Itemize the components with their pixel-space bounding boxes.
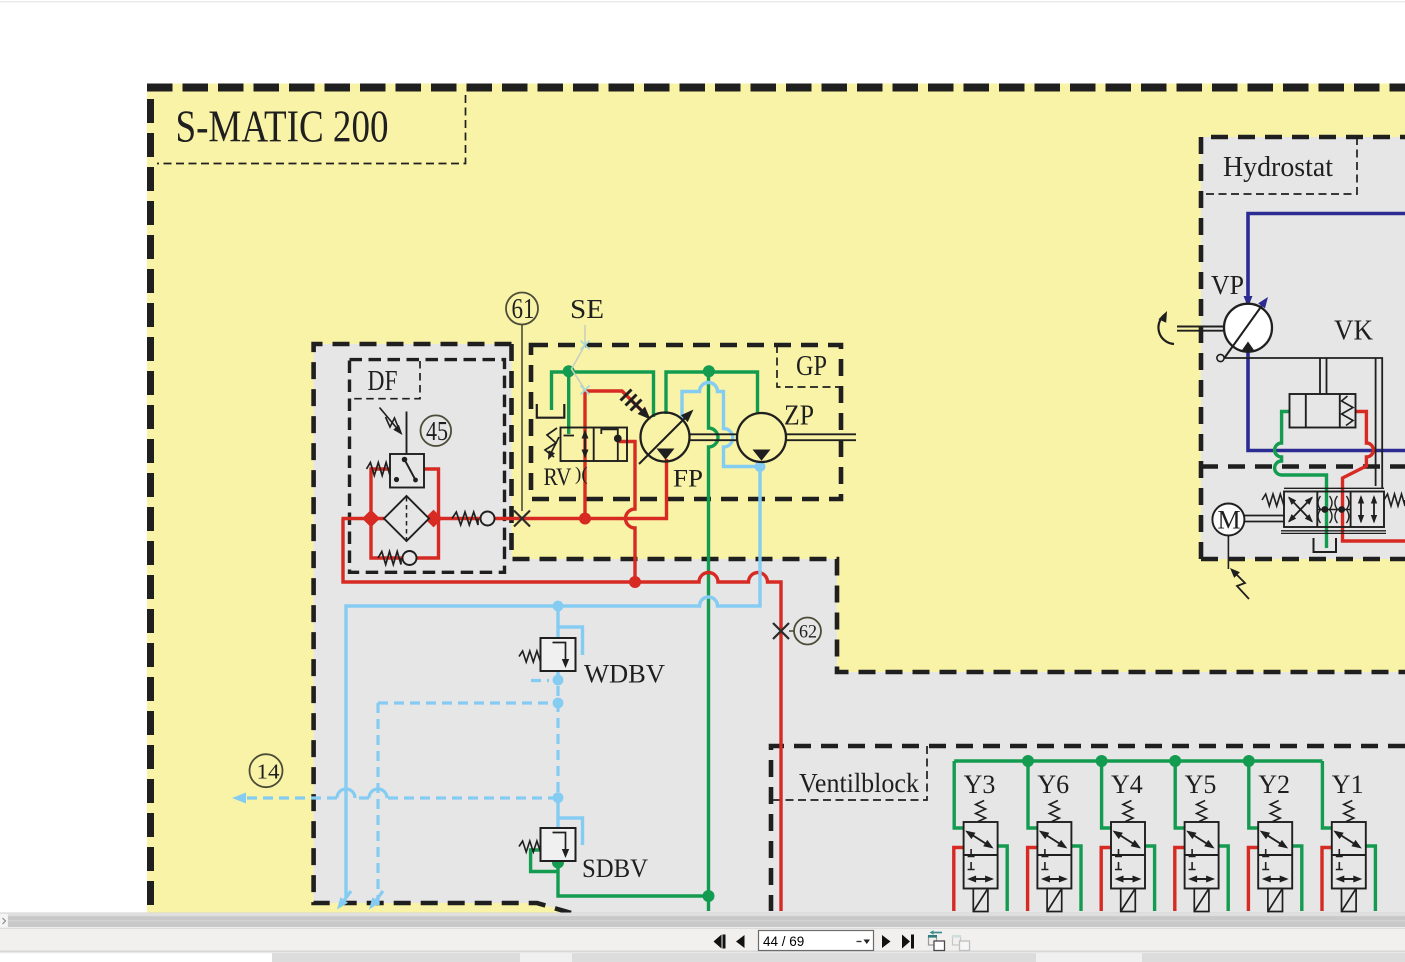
wire red Hydrostat VK right <box>1343 412 1405 542</box>
svg-text:14: 14 <box>257 760 281 784</box>
svg-text:Ventilblock: Ventilblock <box>799 768 919 798</box>
VP shaft <box>1177 326 1225 328</box>
valve Y4 <box>1102 761 1111 828</box>
wire green suction bus right segment FP to ZP <box>666 372 758 414</box>
line to marker 61 <box>521 325 523 512</box>
RV blocked port tick <box>564 435 575 437</box>
border title box <box>157 95 466 164</box>
cylinder VK body <box>1290 394 1356 428</box>
pump VP circle <box>1224 304 1272 352</box>
horizontal scrollbar <box>0 913 1405 929</box>
wire green SDBV outlet <box>531 850 709 896</box>
wire blue dashed arc bumps <box>337 789 387 798</box>
VK feedback linkage <box>1224 358 1383 488</box>
svg-text:ZP: ZP <box>784 401 814 432</box>
bottom status strip <box>0 952 1405 962</box>
page number box <box>759 931 874 951</box>
node red junction diamond <box>425 510 443 528</box>
valve RV body <box>561 428 628 462</box>
svg-text:45: 45 <box>426 416 448 446</box>
border GP box <box>531 345 841 499</box>
node blue junction <box>553 792 564 803</box>
orifice spring lower bypass <box>378 552 401 565</box>
pressure switch 45 body <box>390 454 424 488</box>
wire green tank to suction bus left segment <box>552 372 654 417</box>
RV flow arrow <box>584 433 586 456</box>
VP pivot <box>1217 354 1224 361</box>
wire green Ventilblock bus <box>954 759 1322 762</box>
svg-text:44 / 69: 44 / 69 <box>763 934 804 949</box>
X tap 62 <box>773 623 789 639</box>
svg-text:62: 62 <box>799 622 817 643</box>
pressure switch stem <box>406 412 408 455</box>
prop valve right arrows <box>1360 497 1362 522</box>
svg-text:VK: VK <box>1334 316 1373 347</box>
prop valve body <box>1284 492 1384 528</box>
node green bus dot <box>1243 755 1255 767</box>
RV spring lower left <box>545 428 557 457</box>
node blue junction <box>553 675 564 686</box>
wire blue WDBV feed <box>558 606 583 655</box>
border GP label box <box>777 345 841 387</box>
wire green branch to RV valve <box>567 372 570 434</box>
border Ventilblock label box <box>771 746 927 800</box>
node green junction <box>703 365 715 377</box>
node green junction <box>703 890 715 902</box>
node blue junction <box>755 461 766 472</box>
tank below prop valve <box>1314 538 1337 552</box>
prop valve center throttles <box>1321 506 1328 513</box>
border gray region <box>314 344 1405 913</box>
marker circle 61 <box>506 293 538 325</box>
node green bus dot <box>1022 755 1034 767</box>
border Hydrostat label box <box>1201 137 1357 194</box>
wire navy top line to VP <box>1248 214 1405 300</box>
node red junction <box>629 576 641 588</box>
M actuator zigzag arrow <box>1233 571 1249 599</box>
M actuator line <box>1227 536 1229 570</box>
border S-MATIC outer left <box>147 88 154 906</box>
wire blue dashed pilot stub <box>531 679 549 682</box>
M shaft <box>1245 515 1285 517</box>
motor M circle <box>1212 504 1244 536</box>
node green junction <box>563 365 575 377</box>
rotation arrow <box>1158 314 1174 344</box>
wire blue dashed line to 14 <box>244 796 558 799</box>
svg-text:WDBV: WDBV <box>584 660 665 689</box>
wire blue FP top to ZP bottom <box>682 383 760 467</box>
node green bus dot <box>1096 755 1108 767</box>
toolbar <box>0 928 1405 952</box>
prop valve rails <box>1281 488 1386 533</box>
valve WDBV body <box>541 638 576 671</box>
valve SDBV body <box>541 828 576 861</box>
prop valve crossed arrows <box>1289 498 1312 522</box>
arrow blue tank dashed <box>369 897 380 909</box>
icon facing pages (disabled) <box>952 935 970 951</box>
svg-text:Y1: Y1 <box>1332 770 1364 799</box>
wire blue WDBV outlet <box>556 671 559 680</box>
wire red RV pilot line <box>585 391 641 519</box>
SDBV arrow <box>553 833 566 851</box>
arrow blue tank left <box>337 897 348 909</box>
arrow blue to 14 <box>232 793 246 804</box>
S-MATIC 200 yellow region <box>147 84 1405 914</box>
button first page <box>714 935 915 949</box>
drive shaft lines <box>690 433 738 435</box>
wire green Hydrostat VK to tank <box>1275 412 1327 549</box>
valve Y5 <box>1175 761 1184 828</box>
svg-text:SE: SE <box>570 294 604 324</box>
icon single page <box>928 930 945 950</box>
svg-text:Hydrostat: Hydrostat <box>1223 151 1333 183</box>
FP control spring arrow <box>631 400 647 416</box>
svg-text:SDBV: SDBV <box>582 854 648 883</box>
border S-MATIC outer top <box>147 84 1405 92</box>
node blue junction <box>553 698 564 709</box>
node red junction diamond <box>362 510 380 528</box>
node green bus dot <box>1169 755 1181 767</box>
svg-text:FP: FP <box>673 466 703 493</box>
wire green long vertical to valve block <box>709 372 719 911</box>
wire red DF switch bypass <box>371 469 439 519</box>
wire red DF lower check bypass <box>371 519 439 559</box>
border Ventilblock box <box>771 746 1405 911</box>
WDBV spring <box>519 651 541 662</box>
wire blue dashed WDBV drain vertical <box>556 686 559 797</box>
orifice spring main line <box>452 512 478 525</box>
SE sensor line <box>572 325 586 391</box>
VP variable arrow <box>1224 304 1263 359</box>
wire red main pressure line DF to FP <box>342 459 667 519</box>
svg-text:S-MATIC 200: S-MATIC 200 <box>176 102 389 152</box>
SE tap marks <box>581 341 590 395</box>
node green junction <box>552 857 564 869</box>
svg-text:)(: )( <box>575 464 588 485</box>
border DF label box <box>351 361 420 399</box>
valve Y2 <box>1249 761 1258 828</box>
svg-text:Y3: Y3 <box>964 770 996 799</box>
SDBV spring <box>519 841 541 852</box>
gray sub-block region <box>314 344 1405 913</box>
svg-text:RV: RV <box>544 464 572 491</box>
FP variable arrow <box>639 416 687 464</box>
svg-text:VP: VP <box>1211 270 1244 300</box>
spring left of switch <box>367 463 391 476</box>
Hydrostat gray region <box>1201 137 1405 559</box>
wire navy VP outlet <box>1248 352 1405 451</box>
wire blue dashed horizontal upper <box>378 701 558 704</box>
wire blue main down and left <box>346 467 760 898</box>
svg-text:M: M <box>1218 506 1241 535</box>
check ball lower bypass <box>403 551 417 565</box>
border Hydrostat box <box>1201 137 1405 559</box>
valve Y6 <box>1028 761 1037 828</box>
valve Y3 <box>954 761 963 828</box>
marker circle 62 <box>794 618 821 645</box>
wire blue dashed vertical left <box>376 703 379 905</box>
wire red RV right port with hop <box>619 442 635 583</box>
svg-text:Y2: Y2 <box>1258 770 1290 799</box>
svg-text:61: 61 <box>512 294 535 325</box>
ZP out triangle <box>753 450 771 461</box>
node red junction <box>579 513 591 525</box>
pump FP circle <box>641 413 690 462</box>
svg-text:Y4: Y4 <box>1111 770 1143 799</box>
svg-text:Y5: Y5 <box>1185 770 1217 799</box>
filter DF diamond <box>384 496 429 541</box>
check ball main line <box>481 512 495 526</box>
svg-text:DF: DF <box>368 366 398 397</box>
valve Y1 <box>1322 761 1331 828</box>
svg-text:GP: GP <box>796 351 827 382</box>
marker circle 14 <box>250 754 283 787</box>
node blue junction <box>553 601 564 612</box>
pressure switch contact <box>405 460 416 481</box>
marker circle 45 <box>421 415 452 446</box>
border DF inner box <box>350 360 505 573</box>
pressure switch actuator arrow <box>386 417 399 428</box>
wire red DF drain + lower line to 62 <box>343 519 781 912</box>
wire blue SDBV feed <box>558 797 583 845</box>
tank symbol GP <box>537 404 565 418</box>
X tap 61 <box>514 511 530 527</box>
svg-text:Y6: Y6 <box>1037 770 1069 799</box>
wire blue ZP stub <box>758 461 761 467</box>
arrow navy into VP <box>1244 296 1253 307</box>
FP out triangle <box>657 449 675 460</box>
prop valve springs <box>1262 494 1284 506</box>
WDBV arrow <box>553 643 566 661</box>
VP in triangle <box>1241 342 1255 352</box>
pump ZP circle <box>737 413 786 462</box>
RV right cell detail <box>601 429 618 461</box>
VK spring <box>1342 396 1354 426</box>
